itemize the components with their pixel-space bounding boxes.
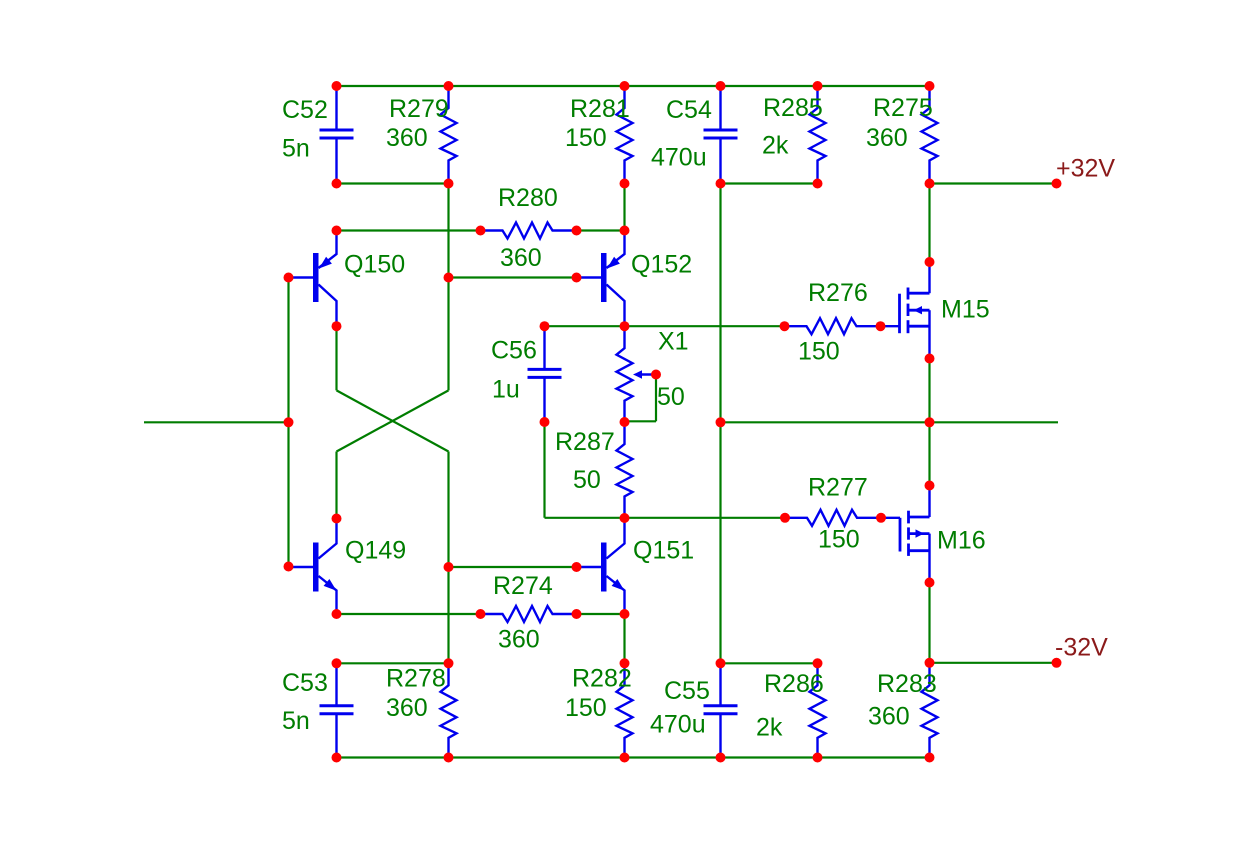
node at 929.5,422.3 [925,417,935,427]
wire C55-R286 rail [721,662,818,664]
transistor Q150 [289,231,337,327]
R274 reference label [493,572,553,600]
node at 720.5,86 [716,81,726,91]
svg-text:150: 150 [565,124,607,152]
svg-text:2k: 2k [762,132,789,160]
wire bottom rail [337,756,930,758]
resistor R276 [785,318,881,334]
svg-text:M16: M16 [937,527,986,555]
wire M16 source to -32V [928,583,930,663]
wire C53-R278 rail [337,662,449,664]
svg-text:1u: 1u [492,376,520,404]
node at 624.5,663.3 [620,658,630,668]
R287 value label 50 [573,466,601,494]
wire output mid rail [721,421,1059,423]
svg-text:-32V: -32V [1055,634,1108,662]
wire cross diagonal A [337,390,449,451]
Q150 reference label [344,251,405,279]
svg-text:R276: R276 [808,279,868,307]
wire Q152 base row [449,276,577,278]
node at 929.5,662.8 [925,658,935,668]
R278 value label 360 [386,694,428,722]
R286 reference label [764,670,824,698]
svg-text:360: 360 [498,626,540,654]
svg-text:360: 360 [500,244,542,272]
resistor R274 [481,606,577,622]
Q152 reference label [631,251,692,279]
svg-text:150: 150 [818,526,860,554]
R286 value label 2k [756,714,783,742]
wire C52-R279 rail [337,182,449,184]
mosfet M16 [881,486,930,583]
R282 value label 150 [565,694,607,722]
svg-text:2k: 2k [756,714,783,742]
wire top rail [337,85,930,87]
node at 817.5,757.5 [813,753,823,763]
svg-text:50: 50 [657,383,685,411]
R275 reference label [873,94,933,122]
node at 480.5,230.5 [476,226,486,236]
resistor R283 [922,663,938,757]
node at 544.5,422 [540,417,550,427]
R283 value label 360 [868,703,910,731]
node at 336.5,183.5 [332,179,342,189]
svg-text:470u: 470u [650,711,706,739]
transistor Q151 [577,518,625,614]
wire Q151 base row [449,566,577,568]
node at 448.5,277.5 [444,273,454,283]
wire X1 wiper down [655,375,657,422]
node at 1056.5,662.8 [1052,658,1062,668]
node at 929.5,358.5 [925,354,935,364]
svg-text:50: 50 [573,466,601,494]
R282 reference label [572,665,632,693]
svg-text:R282: R282 [572,665,632,693]
R274 value label 360 [498,626,540,654]
R279 value label 360 [386,124,428,152]
svg-text:360: 360 [386,694,428,722]
node at 817.5,183.5 [813,179,823,189]
resistor R280 [481,223,577,239]
capacitor C52 [320,86,354,184]
svg-text:Q152: Q152 [631,251,692,279]
R287 reference label [555,428,615,456]
R285 value label 2k [762,132,789,160]
svg-text:360: 360 [868,703,910,731]
svg-text:M15: M15 [941,296,990,324]
svg-text:R274: R274 [493,572,553,600]
svg-text:C53: C53 [282,669,328,697]
node at 336.5,663.3 [332,658,342,668]
node at 544.5,326.2 [540,321,550,331]
power label +32V [1056,155,1115,183]
wire input column [287,278,289,567]
resistor R275 [922,86,938,184]
node at 288.5,566.5 [284,562,294,572]
transistor Q149 [289,519,337,615]
node at 336.5,518.5 [332,514,342,524]
svg-text:R283: R283 [877,670,937,698]
svg-text:R287: R287 [555,428,615,456]
node at 336.5,757.5 [332,753,342,763]
svg-text:360: 360 [386,124,428,152]
node at 336.5,326.2 [332,321,342,331]
C52 value label 5n [282,135,310,163]
svg-text:Q151: Q151 [633,537,694,565]
svg-text:R286: R286 [764,670,824,698]
R277 value label 150 [818,526,860,554]
node at 624.5,183.5 [620,179,630,189]
R276 reference label [808,279,868,307]
svg-text:Q149: Q149 [345,537,406,565]
R280 value label 360 [500,244,542,272]
node at 624.5,757.5 [620,753,630,763]
node at 817.5,663.3 [813,658,823,668]
svg-text:150: 150 [798,338,840,366]
node at 929.5,262 [925,257,935,267]
node at 336.5,86 [332,81,342,91]
R283 reference label [877,670,937,698]
wire R287 bottom row to R277 [545,517,786,519]
node at 929.5,485.5 [925,481,935,491]
node at 656,374.5 [651,370,661,380]
wire Q152 emitter column upper [623,184,625,231]
wire R279 column down [447,184,449,391]
C54 reference label [666,96,712,124]
node at 624.5,614 [620,609,630,619]
svg-text:R279: R279 [389,95,449,123]
resistor R282 [617,663,633,757]
M15 reference label [941,296,990,324]
wire +32V to M15 drain [928,184,930,263]
svg-text:5n: 5n [282,707,310,735]
svg-text:C54: C54 [666,96,712,124]
resistor R281 [617,86,633,184]
node at 720.5,422.3 [716,417,726,427]
wire -32V rail [930,662,1057,664]
wire to Q149 collector [335,452,337,519]
svg-text:Q150: Q150 [344,251,405,279]
node at 448.5,567 [444,562,454,572]
wire C56 bottom down [543,422,545,518]
C56 reference label [491,337,537,365]
M16 reference label [937,527,986,555]
C55 reference label [664,677,710,705]
node at 448.5,663.3 [444,658,454,668]
Q149 reference label [345,537,406,565]
resistor R279 [441,86,457,184]
capacitor C53 [320,663,354,757]
svg-text:+32V: +32V [1056,155,1115,183]
node at 288.5,277.5 [284,273,294,283]
wire cross diagonal B [337,390,449,451]
wire Q150 emitter down [335,326,337,390]
wire R274 to Q151 emitter [577,613,625,615]
wire X1 wiper jog [625,420,657,422]
svg-text:R278: R278 [386,665,446,693]
R285 reference label [763,94,823,122]
node at 448.5,183.5 [444,179,454,189]
node at 576.5,567 [572,562,582,572]
capacitor C56 [528,326,562,422]
resistor R278 [441,663,457,757]
node at 929.5,86 [925,81,935,91]
node at 448.5,86 [444,81,454,91]
node at 817.5,86 [813,81,823,91]
node at 929.5,183.5 [925,179,935,189]
node at 1056.5,183.5 [1052,179,1062,189]
svg-text:C56: C56 [491,337,537,365]
R281 value label 150 [565,124,607,152]
wire Q151 emitter to R282 [623,614,625,663]
node at 624.5,326.2 [620,321,630,331]
node at 881,517.8 [876,513,886,523]
capacitor C54 [704,86,738,184]
resistor R285 [810,86,826,184]
wire R280 to Q152 emitter column [577,229,625,231]
R277 reference label [808,474,868,502]
wire C54-C55 long column [719,184,721,664]
svg-text:X1: X1 [658,328,689,356]
X1 value label 50 [657,383,685,411]
R279 reference label [389,95,449,123]
node at 929.5,582.5 [925,578,935,588]
C55 value label 470u [650,711,706,739]
node at 720.5,663.3 [716,658,726,668]
svg-text:5n: 5n [282,135,310,163]
node at 880.5,326.2 [876,321,886,331]
wire +32V rail [930,182,1057,184]
node at 624.5,86 [620,81,630,91]
svg-text:C52: C52 [282,96,328,124]
wire M15 source to M16 drain [928,359,930,486]
R280 reference label [498,184,558,212]
node at 576.5,614 [572,609,582,619]
svg-text:R280: R280 [498,184,558,212]
svg-text:R281: R281 [570,95,630,123]
svg-text:150: 150 [565,694,607,722]
mosfet M15 [881,262,930,359]
svg-text:R275: R275 [873,94,933,122]
node at 785,517.8 [780,513,790,523]
resistor R287 [617,422,633,518]
wire cross right column down [447,452,449,664]
wire input [144,421,289,423]
svg-text:470u: 470u [651,144,707,172]
node at 576.5,277.5 [572,273,582,283]
potentiometer X1 [617,326,657,422]
R281 reference label [570,95,630,123]
resistor R286 [810,663,826,757]
wire C56/X1/R276 row [545,325,785,327]
C54 value label 470u [651,144,707,172]
node at 720.5,183.5 [716,179,726,189]
X1 reference label [658,328,689,356]
node at 624.5,518 [620,513,630,523]
transistor Q152 [577,231,625,327]
R275 value label 360 [866,124,908,152]
node at 720.5,757.5 [716,753,726,763]
C53 reference label [282,669,328,697]
R276 value label 150 [798,338,840,366]
power label -32V [1055,634,1108,662]
wire C54-R285 rail [721,182,818,184]
node at 448.5,757.5 [444,753,454,763]
C53 value label 5n [282,707,310,735]
node at 624.5,230.5 [620,226,630,236]
wire Q149 emitter to R274 [337,613,481,615]
node at 624.5,422 [620,417,630,427]
svg-text:R277: R277 [808,474,868,502]
wire Q150 collector to R280 [337,229,481,231]
node at 784.5,326.2 [780,321,790,331]
node at 480.5,614 [476,609,486,619]
svg-text:C55: C55 [664,677,710,705]
C56 value label 1u [492,376,520,404]
svg-text:360: 360 [866,124,908,152]
R278 reference label [386,665,446,693]
resistor R277 [785,510,881,526]
node at 336.5,614 [332,609,342,619]
C52 reference label [282,96,328,124]
capacitor C55 [704,663,738,757]
node at 929.5,757.5 [925,753,935,763]
svg-text:R285: R285 [763,94,823,122]
node at 336.5,230.5 [332,226,342,236]
node at 576.5,230.5 [572,226,582,236]
Q151 reference label [633,537,694,565]
node at 288.5,422.3 [284,417,294,427]
